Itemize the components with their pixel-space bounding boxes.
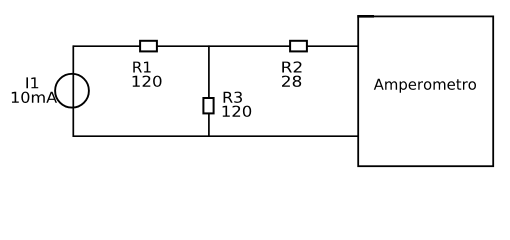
value label 10mA xyxy=(12,92,57,103)
label R1 xyxy=(133,62,150,73)
label Amperometro xyxy=(374,79,476,93)
value label 28 (R2) xyxy=(282,76,301,87)
ammeter box top-left thick segment xyxy=(357,15,374,18)
ammeter box (Amperometro) xyxy=(358,16,493,166)
current source I1 (circle symbol) xyxy=(55,74,89,108)
label R2 xyxy=(282,61,301,72)
wire middle vertical (through R3) xyxy=(208,45,210,137)
resistor R3 (box) xyxy=(203,98,213,113)
wire left vertical (through I1) xyxy=(72,45,74,137)
resistor R1 (box) xyxy=(140,41,157,52)
value label 120 (R1) xyxy=(133,76,162,87)
wire top (node I1 / R1 / R2 / ammeter) xyxy=(73,45,358,47)
label I1 xyxy=(26,77,38,88)
value label 120 (R3) xyxy=(223,106,252,117)
label R3 xyxy=(224,92,242,103)
resistor R2 (box) xyxy=(290,41,307,52)
wire bottom (return wire) xyxy=(73,135,358,137)
